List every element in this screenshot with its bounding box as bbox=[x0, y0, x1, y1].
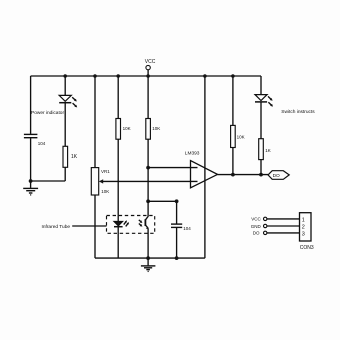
svg-text:10K: 10K bbox=[123, 126, 131, 131]
IR emitter LED inside tube bbox=[114, 220, 129, 226]
pin GND of CON3 bbox=[251, 224, 300, 229]
resistor R4 10K bbox=[231, 125, 245, 147]
wire rail to VR1 top bbox=[94, 76, 96, 168]
wire input node down to phototransistor collector node bbox=[147, 168, 149, 202]
wire R4 bottom to output bbox=[232, 148, 234, 175]
svg-text:Switch instructs: Switch instructs bbox=[281, 109, 315, 115]
node junction R2 on rail bbox=[116, 74, 120, 78]
ground GND1 bbox=[23, 181, 38, 195]
phototransistor inside tube bbox=[139, 201, 149, 229]
pin VCC of CON3 bbox=[251, 217, 299, 222]
wire R5 bottom to output node bbox=[260, 160, 262, 175]
wire IR LED cathode to bottom rail bbox=[117, 227, 119, 258]
svg-text:DO: DO bbox=[273, 173, 280, 179]
node junction U1 supply on rail bbox=[203, 74, 207, 78]
wire rail corner to D2 anode bbox=[260, 76, 262, 95]
node junction C2 bottom bbox=[175, 256, 179, 260]
wire U1 output line bbox=[218, 174, 269, 176]
optocoupler dashed enclosure bbox=[107, 216, 155, 234]
svg-text:10K: 10K bbox=[237, 134, 245, 139]
wire VR1 bottom to bottom rail bbox=[94, 195, 96, 258]
wire phototransistor emitter to bottom rail bbox=[147, 228, 149, 258]
svg-text:Infrared Tube: Infrared Tube bbox=[42, 224, 71, 230]
capacitor C2 104 bbox=[171, 224, 191, 231]
resistor R5 1K bbox=[259, 139, 271, 160]
ground GND2 bbox=[141, 258, 156, 271]
potentiometer VR1 10K bbox=[91, 168, 110, 195]
node junction C2 top corner bbox=[175, 199, 179, 203]
wire top power rail bbox=[31, 75, 261, 77]
svg-text:3: 3 bbox=[302, 231, 305, 237]
wire U1 supply column through triangle bbox=[204, 76, 206, 258]
svg-text:104: 104 bbox=[183, 226, 191, 231]
svg-text:DO: DO bbox=[253, 231, 260, 236]
node junction phototransistor emitter / ground bbox=[146, 256, 150, 260]
svg-text:LM393: LM393 bbox=[185, 151, 200, 157]
svg-text:VR1: VR1 bbox=[101, 169, 110, 174]
node junction R4 / output bbox=[231, 173, 235, 177]
node junction R3/VCC on rail bbox=[146, 74, 150, 78]
wire left branch down to C1 bbox=[30, 76, 32, 134]
node junction R5 / output bbox=[259, 173, 263, 177]
svg-text:CON3: CON3 bbox=[300, 245, 314, 251]
wire bottom ground rail bbox=[95, 257, 205, 259]
svg-text:GND: GND bbox=[251, 224, 262, 229]
svg-text:2: 2 bbox=[302, 224, 305, 230]
wire ground node to R1 bottom bbox=[31, 180, 66, 182]
resistor R2 10K bbox=[116, 119, 131, 140]
LED D1 power indicator bbox=[59, 95, 77, 107]
wire input node to U1 non-inverting input bbox=[148, 167, 197, 169]
wire rail to R4 bbox=[232, 76, 234, 125]
svg-text:10K: 10K bbox=[101, 189, 109, 194]
wire rail to D1 anode bbox=[64, 76, 66, 95]
wire R3 bottom to input node bbox=[147, 139, 149, 167]
svg-text:104: 104 bbox=[38, 141, 46, 146]
wire R1 bottom to ground node bbox=[64, 167, 66, 181]
svg-text:10K: 10K bbox=[152, 126, 160, 131]
node junction R3 / U1 non-inverting input bbox=[146, 166, 150, 170]
wire C1 bottom to ground node bbox=[30, 138, 32, 181]
wire D2 cathode to R5 bbox=[260, 102, 262, 139]
svg-text:1K: 1K bbox=[71, 154, 78, 160]
connector CON3 body bbox=[300, 213, 314, 252]
svg-text:VCC: VCC bbox=[145, 59, 156, 65]
wire label leader to enclosure bbox=[72, 225, 106, 227]
svg-text:VCC: VCC bbox=[251, 217, 261, 222]
node junction VR1 on rail bbox=[93, 74, 97, 78]
wire rail to R2 bbox=[117, 76, 119, 119]
wire C2 top lead bbox=[176, 201, 178, 223]
capacitor C1 104 bbox=[24, 134, 46, 146]
resistor R3 10K bbox=[146, 119, 161, 140]
op-amp U1 LM393 bbox=[185, 151, 218, 188]
wire C2 bottom to bottom rail bbox=[176, 228, 178, 258]
svg-text:Power indicator: Power indicator bbox=[31, 110, 64, 116]
svg-text:1: 1 bbox=[302, 217, 305, 223]
node junction R4 on rail bbox=[231, 74, 235, 78]
wire VR1 wiper to U1 inverting input bbox=[103, 180, 198, 182]
wire R2 bottom to IR LED bbox=[117, 139, 119, 221]
wire D1 cathode to R1 bbox=[64, 103, 66, 147]
node junction D1 on rail bbox=[63, 74, 67, 78]
pin DO of CON3 bbox=[253, 231, 300, 236]
node junction collector / C2 bbox=[146, 199, 150, 203]
power flag VCC bbox=[145, 59, 156, 76]
resistor R1 1K bbox=[63, 146, 78, 167]
wire collector node to C2 top bbox=[148, 200, 177, 202]
connector DO output flag bbox=[268, 171, 289, 180]
wire rail to R3 bbox=[147, 76, 149, 119]
node junction C1/R1/ground bbox=[29, 179, 33, 183]
svg-text:1K: 1K bbox=[265, 148, 271, 153]
LED D2 switch indicator bbox=[255, 95, 273, 107]
